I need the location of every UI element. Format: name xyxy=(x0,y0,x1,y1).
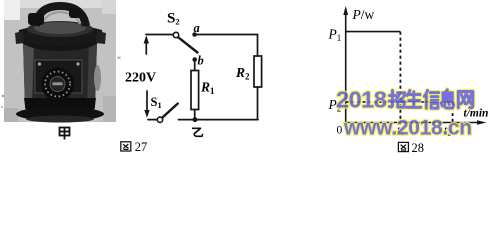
svg-text:b: b xyxy=(198,54,204,68)
label 图 28 xyxy=(398,141,424,155)
cooker body xyxy=(23,42,101,112)
paper speck xyxy=(118,57,121,59)
svg-text:S1: S1 xyxy=(151,95,162,110)
label 图 27 xyxy=(121,140,148,154)
paper speck xyxy=(2,95,4,97)
svg-text:P/w: P/w xyxy=(352,7,375,22)
wire R1 to node xyxy=(194,110,196,120)
label 乙 xyxy=(192,128,202,136)
panel corner dots xyxy=(38,62,80,65)
paper speck xyxy=(1,106,3,108)
wire top left horizontal xyxy=(146,34,173,36)
svg-text:www.2018.cn: www.2018.cn xyxy=(343,116,472,139)
dashed P2 guide xyxy=(346,101,401,103)
y axis xyxy=(345,9,347,123)
lid handle xyxy=(36,6,86,26)
display window xyxy=(51,99,66,106)
P1 level line xyxy=(346,31,401,33)
control panel frame xyxy=(35,60,82,93)
cooker lid xyxy=(15,21,106,51)
svg-text:2018: 2018 xyxy=(336,86,387,112)
y axis arrowhead xyxy=(343,6,348,15)
dashed vertical at t1 xyxy=(399,32,401,122)
resistor R1 box xyxy=(191,71,199,110)
wire right branch upper xyxy=(257,35,259,57)
wire right branch lower xyxy=(257,87,259,120)
svg-text:220V: 220V xyxy=(125,71,156,86)
svg-text:S2: S2 xyxy=(167,11,180,27)
dashed vertical at t2 xyxy=(452,102,454,122)
node b dot xyxy=(192,57,197,62)
switch S1 blade xyxy=(162,104,178,118)
supply lead arrow down xyxy=(146,91,148,111)
P2 level line xyxy=(400,101,452,103)
wire bottom horizontal xyxy=(179,119,259,121)
cooker base xyxy=(16,98,104,123)
switch S1 pivot circle xyxy=(157,117,162,122)
arrowhead down (supply) xyxy=(144,110,149,118)
control dial xyxy=(41,68,74,101)
photo background xyxy=(4,0,116,122)
arrowhead up (supply) xyxy=(144,35,149,43)
label 甲 xyxy=(60,128,70,140)
svg-text:0: 0 xyxy=(337,125,343,137)
wire top right horizontal xyxy=(195,34,258,36)
steam valve knob xyxy=(28,8,81,25)
x axis xyxy=(346,122,483,124)
supply lead arrow up xyxy=(145,38,147,54)
svg-text:R1: R1 xyxy=(200,80,215,97)
wire arrow to S1 xyxy=(148,119,157,121)
svg-text:27: 27 xyxy=(135,140,148,154)
node 乙 junction dot xyxy=(193,117,198,122)
switch S2 blade xyxy=(178,37,197,52)
node a dot xyxy=(192,32,197,37)
x axis arrowhead xyxy=(477,120,487,125)
svg-text:P1: P1 xyxy=(328,27,342,44)
switch S2 pivot circle xyxy=(173,32,178,37)
watermark glyphs 招生信息网 xyxy=(390,90,473,109)
svg-text:a: a xyxy=(194,21,200,35)
resistor R2 box xyxy=(254,56,262,87)
svg-text:R2: R2 xyxy=(235,65,250,82)
svg-text:28: 28 xyxy=(412,141,425,155)
wire b to R1 xyxy=(194,60,196,71)
